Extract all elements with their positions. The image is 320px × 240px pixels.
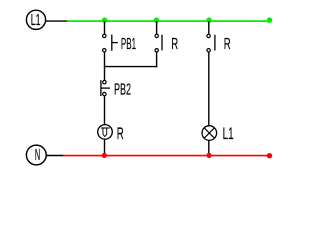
contact R lamp branch (NO): [207, 34, 215, 52]
wire contact R down: [156, 52, 158, 67]
hot rail L1 (green): [67, 20, 270, 22]
neutral terminal N: [26, 145, 46, 165]
pushbutton PB1 (NO): [103, 34, 118, 52]
neutral rail N (red): [63, 155, 270, 157]
wire PB2 to coil R: [104, 96, 106, 125]
contact R seal-in (NO): [155, 34, 162, 52]
wire PB1 to junction A: [104, 52, 106, 80]
source terminal L1: [26, 10, 45, 29]
wire branch3 rail to contact R: [208, 21, 210, 34]
pushbutton PB2 (NC): [101, 80, 110, 96]
wire N to neutral rail: [46, 155, 63, 157]
svg-text:N: N: [35, 147, 40, 164]
wire coil R to neutral rail: [104, 139, 106, 155]
svg-text:PB1: PB1: [121, 36, 136, 53]
wire lamp L1 to neutral rail: [208, 140, 210, 155]
svg-text:R: R: [171, 36, 178, 53]
svg-text:R: R: [224, 36, 231, 53]
wire contact R to lamp L1: [208, 52, 210, 126]
svg-text:R: R: [117, 125, 124, 143]
node coil on neutral rail (red): [102, 153, 107, 158]
svg-text:L1: L1: [223, 125, 234, 143]
wire L1 to hot rail: [46, 20, 68, 22]
node lamp on neutral rail (red): [206, 153, 211, 158]
node branch 2 on hot rail: [154, 17, 160, 23]
node rail end (red): [267, 153, 272, 158]
svg-text:PB2: PB2: [114, 81, 131, 98]
wire branch1 rail to PB1: [104, 21, 106, 34]
node branch 3 on hot rail: [206, 17, 212, 23]
relay coil R: [98, 125, 113, 140]
wire branch2 rail to contact R: [156, 21, 158, 34]
lamp L1: [202, 126, 217, 141]
node branch 1 on hot rail: [102, 17, 108, 23]
node rail end (green): [267, 17, 273, 23]
wire seal-in to junction A (horizontal): [104, 66, 158, 68]
svg-text:L1: L1: [31, 12, 41, 29]
